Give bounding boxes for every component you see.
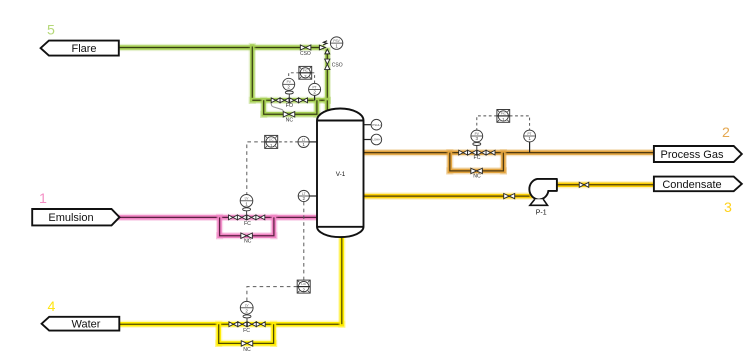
svg-text:NC: NC	[286, 117, 294, 123]
svg-text:Flare: Flare	[71, 43, 96, 55]
valve CSO riser	[325, 59, 343, 70]
tag Flare 5	[41, 41, 119, 56]
instrument PV-2	[283, 78, 295, 90]
valve NC flare bypass	[283, 112, 295, 124]
control valve FC process gas	[459, 142, 495, 161]
valve NC emulsion bypass	[241, 233, 253, 244]
svg-text:PT: PT	[313, 85, 317, 89]
control valve FO	[271, 90, 307, 109]
svg-text:Water: Water	[72, 319, 101, 331]
pipe water bypass	[219, 324, 274, 343]
stub PT-2	[314, 95, 316, 100]
svg-text:3: 3	[476, 136, 479, 141]
svg-text:PSHH: PSHH	[372, 123, 380, 127]
svg-text:1: 1	[245, 201, 248, 206]
valve NC water bypass	[241, 341, 253, 354]
svg-text:FO: FO	[286, 103, 293, 109]
svg-text:4: 4	[48, 299, 56, 315]
instrument PT-1	[524, 130, 536, 142]
svg-text:3: 3	[724, 200, 732, 216]
svg-text:NC: NC	[244, 238, 252, 244]
signal PIC-1 to PV-3	[477, 116, 497, 130]
svg-text:FC: FC	[474, 155, 481, 161]
svg-text:CSO: CSO	[332, 63, 343, 69]
control valve FC water	[229, 314, 265, 334]
svg-text:P-1: P-1	[536, 209, 547, 216]
control valve FC emulsion	[229, 207, 265, 227]
svg-text:5: 5	[47, 22, 55, 38]
pipe process gas bypass	[450, 153, 504, 171]
stream number 2	[722, 125, 730, 141]
valve pump suction	[504, 194, 515, 199]
instrument LIC-2	[297, 280, 310, 293]
svg-text:PSV: PSV	[333, 39, 340, 43]
svg-text:2: 2	[313, 90, 316, 95]
valve pump discharge	[579, 182, 589, 187]
pipe flare bypass	[264, 100, 317, 114]
svg-text:2: 2	[722, 125, 730, 141]
pipe flare header	[119, 44, 322, 51]
svg-text:1: 1	[335, 44, 338, 49]
pipe relief riser	[324, 51, 331, 101]
svg-text:2: 2	[287, 85, 290, 90]
svg-text:2: 2	[245, 309, 248, 314]
svg-text:2: 2	[303, 196, 306, 201]
signal PIC-1 to PT-1	[510, 116, 530, 130]
instrument PV-3	[471, 130, 483, 142]
svg-text:LIC: LIC	[301, 282, 307, 286]
stream number 3	[724, 200, 732, 216]
instrument LSHH	[371, 134, 382, 145]
signal LIC-1 to LV-1	[247, 142, 265, 194]
instrument PIC-2	[299, 66, 312, 79]
interlock link FO-NC	[271, 102, 283, 114]
svg-text:LSHH: LSHH	[372, 138, 380, 142]
stub PT-1	[529, 142, 531, 153]
stub LT-1	[309, 141, 317, 143]
svg-text:CSO: CSO	[300, 51, 311, 57]
stub LT-2	[309, 195, 317, 197]
svg-text:V-1: V-1	[336, 171, 346, 178]
pipe flare branch vertical	[249, 47, 256, 101]
stream number 1	[39, 191, 47, 207]
tag Emulsion 1	[32, 209, 119, 225]
svg-text:Emulsion: Emulsion	[48, 212, 93, 224]
instrument LT-1	[298, 136, 309, 147]
svg-text:1: 1	[302, 142, 305, 147]
pipe flare control main	[252, 97, 327, 104]
instrument LV-1	[240, 195, 253, 208]
stream number 5	[47, 22, 55, 38]
svg-text:FC: FC	[243, 328, 250, 334]
pipe emulsion main	[120, 214, 318, 221]
svg-text:Condensate: Condensate	[662, 179, 721, 191]
tag Water 4	[42, 317, 120, 331]
svg-text:NC: NC	[473, 173, 481, 179]
pipe vessel water outlet	[338, 231, 345, 324]
instrument PT-2	[309, 83, 321, 95]
signal LIC-1 to LT-1	[278, 141, 298, 143]
pipe vessel vapor outlet	[324, 100, 331, 113]
svg-text:FC: FC	[244, 221, 251, 227]
pipe water main	[120, 321, 342, 328]
pump P-1	[529, 179, 557, 216]
tag Process Gas 2	[654, 146, 742, 162]
stream number 4	[48, 299, 56, 315]
svg-text:PIC: PIC	[303, 68, 309, 72]
vessel V-1	[317, 109, 364, 238]
pipe process gas main	[364, 149, 655, 156]
signal LT-2 to LIC-2	[303, 202, 305, 280]
pipe emulsion bypass	[220, 217, 274, 235]
signal PIC-2 to PV-2	[289, 73, 299, 78]
pipe condensate suction	[364, 193, 530, 200]
svg-text:PIC: PIC	[501, 111, 507, 115]
instrument LV-2	[240, 301, 253, 314]
stub PSHH	[364, 124, 372, 126]
svg-text:LIC: LIC	[269, 137, 275, 141]
instrument LIC-1	[265, 135, 278, 148]
signal LIC-2 to LV-2	[247, 287, 297, 302]
pipe condensate discharge	[557, 181, 655, 188]
relief valve PSV-1	[319, 37, 342, 54]
valve NC process gas bypass	[471, 168, 483, 179]
tag Condensate 3	[654, 177, 742, 192]
signal PIC-2 to PT-2	[312, 73, 315, 83]
instrument PSHH	[371, 119, 382, 130]
svg-text:NC: NC	[243, 347, 251, 353]
svg-text:1: 1	[528, 136, 531, 141]
instrument PIC-1	[497, 110, 510, 123]
instrument LT-2	[298, 190, 309, 201]
svg-text:1: 1	[39, 191, 47, 207]
stub LSHH	[364, 139, 372, 141]
valve CSO flare header	[300, 45, 311, 57]
svg-text:Process Gas: Process Gas	[661, 149, 724, 161]
